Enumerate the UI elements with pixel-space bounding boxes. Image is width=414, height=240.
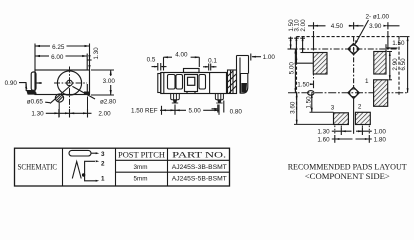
inner band 3: [199, 75, 206, 90]
svg-text:RECOMMENDED PADS LAYOUT: RECOMMENDED PADS LAYOUT: [288, 161, 408, 171]
top bump: [184, 69, 200, 73]
outline dashed left: [296, 37, 298, 112]
body outline: [35, 70, 90, 95]
dim 6.00: [35, 54, 87, 71]
svg-text:SCHEMATIC: SCHEMATIC: [18, 162, 58, 171]
schematic symbol: barrel: [69, 150, 105, 158]
svg-text:2: 2: [101, 160, 105, 167]
dim 1.00 far left: [251, 54, 276, 62]
center square housing: [185, 75, 198, 92]
svg-text:ø0.65: ø0.65: [27, 98, 44, 105]
svg-text:2.00: 2.00: [300, 19, 307, 32]
vertical centerline: [69, 67, 71, 118]
dim 5.00 rotated: [289, 49, 297, 93]
row2 centerline: [288, 92, 409, 94]
svg-text:1.30: 1.30: [93, 47, 100, 60]
dim 1.50 REF / 5.00 bottom: [160, 105, 219, 115]
tall contact bar: [237, 56, 249, 94]
pad 3: [334, 113, 349, 125]
pad 1: [374, 80, 388, 107]
dim 2.90 rotated: [387, 52, 399, 80]
pad TL: [313, 53, 327, 75]
dim 0.5: [152, 63, 167, 71]
svg-text:0.5: 0.5: [147, 56, 156, 63]
svg-text:AJ245S-5B-BSMT: AJ245S-5B-BSMT: [172, 176, 227, 183]
note 2- o1.00: [355, 13, 390, 45]
right assembly: [228, 70, 237, 94]
svg-text:1.00: 1.00: [263, 54, 276, 61]
svg-text:3: 3: [101, 151, 105, 158]
pin B: [215, 94, 223, 104]
pad3 extension lines: [294, 112, 334, 124]
svg-text:POST PITCH: POST PITCH: [118, 150, 165, 159]
svg-text:5mm: 5mm: [134, 176, 148, 183]
vertical centerline: [353, 37, 355, 134]
right inner edge line: [86, 84, 88, 95]
body seam lines: [164, 73, 210, 94]
housing base: [187, 92, 196, 94]
inner band 1: [168, 75, 176, 90]
svg-text:3mm: 3mm: [134, 164, 148, 171]
center square hole: [188, 77, 195, 85]
svg-text:1.50: 1.50: [392, 40, 405, 47]
left tab: [31, 72, 36, 90]
svg-text:0.90: 0.90: [5, 80, 18, 87]
pad TR: [374, 52, 386, 75]
hole diamond 2: [348, 87, 359, 98]
svg-text:1.30: 1.30: [31, 111, 44, 118]
svg-text:1: 1: [365, 78, 369, 85]
svg-text:3.00: 3.00: [103, 78, 116, 85]
outline dashed top: [297, 36, 400, 38]
leader o2.80: [72, 86, 95, 99]
svg-text:6.00: 6.00: [51, 54, 64, 61]
svg-text:5.00: 5.00: [289, 62, 296, 75]
svg-text:4.00: 4.00: [175, 51, 188, 58]
svg-text:ø2.80: ø2.80: [100, 98, 117, 105]
dim 0.90: [19, 83, 42, 88]
dim 1.30 / 2.00 bottom: [46, 109, 92, 118]
svg-text:4.50: 4.50: [331, 23, 344, 30]
svg-text:6.50: 6.50: [400, 58, 407, 71]
svg-text:1: 1: [101, 175, 105, 182]
left foot step: [25, 84, 27, 92]
inner band 2: [176, 75, 183, 90]
center pin circle o0.65: [67, 80, 73, 86]
dim 4.50 / 3.90 top: [308, 22, 400, 50]
bottom extension dotted lines: [335, 126, 370, 136]
dim 0.1: [203, 64, 217, 71]
hole diamond 1: [348, 43, 359, 54]
svg-text:AJ245S-3B-BSMT: AJ245S-3B-BSMT: [172, 164, 227, 171]
dim 4.00: [164, 57, 200, 70]
svg-text:3.90: 3.90: [369, 23, 382, 30]
svg-text:2.90: 2.90: [392, 58, 399, 71]
dim 3.60 rotated: [290, 93, 298, 125]
slot oval: [308, 91, 314, 96]
svg-text:1.00: 1.00: [374, 129, 387, 136]
svg-text:1.50 REF: 1.50 REF: [131, 108, 158, 115]
pin hole circle bottom: [55, 94, 63, 102]
dim 3.00: [91, 70, 114, 95]
svg-text:PART NO.: PART NO.: [172, 150, 226, 159]
svg-text:2: 2: [358, 103, 362, 110]
left shield tab: [158, 74, 161, 93]
svg-text:1.80: 1.80: [374, 137, 387, 144]
svg-text:5.00: 5.00: [188, 108, 201, 115]
left foot pad (solid): [26, 90, 36, 95]
bottom dims row2 1.60 / 1.80: [332, 135, 372, 143]
svg-text:<COMPONENT SIDE>: <COMPONENT SIDE>: [305, 172, 390, 181]
svg-text:0.80: 0.80: [230, 109, 243, 116]
bottom dims row1 1.30 / 1.00: [332, 127, 372, 135]
dim 0.80: [212, 101, 224, 113]
svg-text:2- ø1.00: 2- ø1.00: [366, 13, 390, 20]
svg-text:2.00: 2.00: [98, 111, 111, 118]
bottom extension lines: [59, 97, 87, 118]
pad 2: [355, 112, 370, 124]
dim 6.50 rotated: [400, 37, 410, 93]
hook contact: [241, 74, 248, 94]
svg-text:1.30: 1.30: [317, 129, 330, 136]
dim 1.50 horizontal mid-left: [297, 81, 313, 89]
svg-text:3: 3: [331, 104, 335, 111]
svg-text:0.1: 0.1: [208, 58, 217, 65]
svg-text:3.60: 3.60: [290, 101, 297, 114]
main body: [161, 73, 227, 94]
leader o0.65: [45, 101, 50, 104]
dim 6.25: [35, 44, 90, 71]
horizontal centerline: [54, 82, 87, 84]
row1 centerline: [288, 48, 399, 50]
schematic symbol: pin spike: [72, 162, 81, 179]
hook solid fill: [241, 83, 247, 92]
schematic symbol: switch bracket: [82, 160, 105, 182]
dim 1.50 rotated mid: [305, 93, 312, 112]
dim 1.50 top right: [386, 40, 405, 52]
svg-text:1.50: 1.50: [305, 96, 312, 109]
table frame: [15, 148, 230, 186]
barrel circle o2.80: [57, 71, 81, 95]
svg-text:1.50: 1.50: [297, 82, 310, 89]
svg-text:6.25: 6.25: [52, 44, 65, 51]
outline dashed right: [398, 37, 400, 96]
pin A: [171, 94, 180, 104]
pad TL left dotted extension: [313, 74, 315, 80]
right foot pad (solid): [84, 92, 90, 96]
dim 1.30 vertical right: [87, 59, 91, 61]
svg-text:1.60: 1.60: [317, 137, 330, 144]
